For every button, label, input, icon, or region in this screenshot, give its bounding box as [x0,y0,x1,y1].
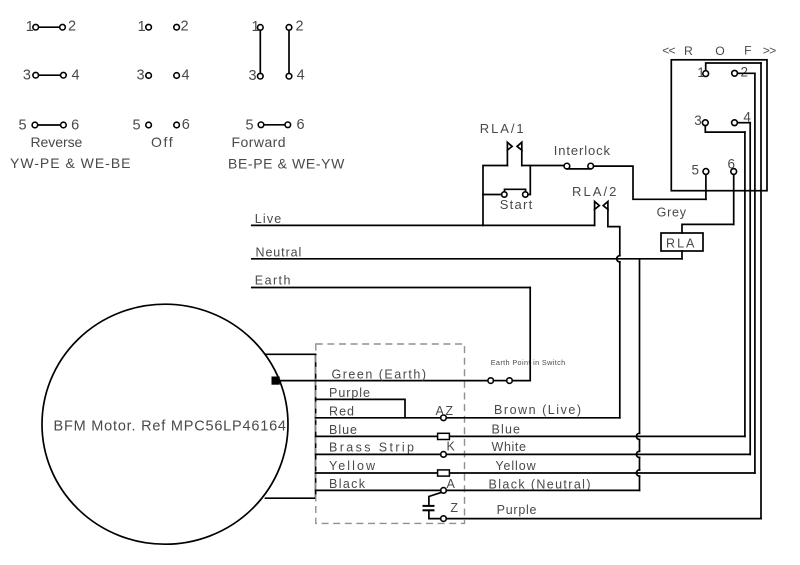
svg-text:F: F [744,44,751,58]
svg-text:AZ: AZ [436,404,454,418]
svg-text:Green (Earth): Green (Earth) [332,368,427,382]
svg-text:3: 3 [23,68,31,84]
wire: contact 2 to vertical [738,72,755,74]
wire: RLA/2 output down to Brown (Live) [619,262,621,418]
wire White [446,453,750,455]
earth terminal on motor frame (filled square) [272,377,280,385]
svg-text:YW-PE & WE-BE: YW-PE & WE-BE [10,155,131,171]
svg-text:6: 6 [182,117,190,133]
wire hop over White [636,451,639,457]
svg-text:1: 1 [697,65,705,80]
svg-text:2: 2 [68,19,76,35]
terminal Z [441,501,459,521]
Forward position: link contacts 2-4 [286,19,305,84]
svg-text:Earth Point in Switch: Earth Point in Switch [491,358,566,367]
svg-text:Purple: Purple [329,386,370,400]
svg-text:6: 6 [728,156,736,171]
Forward position: link contacts 1-3 [248,19,263,84]
wire hop: RLA/2 output over Neutral [617,256,620,262]
wire Blue [316,435,745,437]
svg-text:Red: Red [329,404,354,418]
svg-text:K: K [447,440,456,454]
wire: Neutral branch down to Black (Neutral) [636,259,639,491]
wire Earth [252,287,530,289]
motor M1: BFM Motor [42,304,288,544]
wire: contact 6 drop [733,174,735,224]
Off position: open contacts 3,4 [137,67,190,83]
relay contact RLA/1 (flag pair) [507,142,521,165]
wire: RLA/2 output jog [608,227,620,256]
ROF contact 1 [697,65,708,80]
wire: terminal bus vertical [315,354,317,498]
svg-text:BFM Motor. Ref MPC56LP46164: BFM Motor. Ref MPC56LP46164 [54,418,287,434]
svg-text:Yellow: Yellow [329,459,376,473]
wire Black (Neutral) [446,489,639,491]
terminal K [441,440,456,458]
svg-text:RLA/1: RLA/1 [480,121,524,136]
wire: Grey wire from contact 6 to RLA coil [682,224,734,233]
wire Live [252,224,595,226]
svg-text:1: 1 [138,19,146,35]
SECTION: supply wires [252,212,682,491]
wire Brown (Live) [446,417,620,419]
Reverse position: link contacts 5-6 [18,117,79,133]
terminal AZ [436,404,454,421]
svg-text:Z: Z [450,501,458,515]
ROF contact 2 [732,64,748,79]
terminal box (dashed) [316,344,465,523]
Forward position: link contacts 5-6 [245,117,304,134]
svg-text:6: 6 [71,117,79,133]
svg-text:RLA/2: RLA/2 [572,184,616,199]
SECTION: relay logic [480,121,706,418]
ROF contact 6 [728,156,737,174]
svg-text:2: 2 [180,19,188,35]
svg-text:4: 4 [297,68,305,84]
wire: contact 2 drop to Yellow wire [754,73,756,473]
wire: start button left leg [483,194,502,196]
svg-text:4: 4 [71,67,79,83]
svg-text:Reverse: Reverse [31,134,83,150]
svg-text:3: 3 [248,68,256,84]
svg-text:Neutral: Neutral [256,245,302,259]
wire: live riser to RLA/1 left terminal [483,166,507,226]
svg-text:<<: << [662,44,675,58]
svg-text:A: A [447,477,456,491]
SECTION: ROF selector switch [657,44,777,519]
svg-text:Interlock: Interlock [554,143,611,158]
wire: contact 4 to vertical [737,122,750,124]
wire Green (Earth) [276,380,488,382]
svg-text:Blue: Blue [492,423,521,437]
svg-text:1: 1 [26,19,34,35]
svg-text:R: R [684,44,693,58]
capacitor C1 [423,493,442,519]
wire: interlock to ROF contact 5 [594,166,706,199]
svg-text:Grey: Grey [657,206,687,220]
svg-text:4: 4 [181,67,189,83]
ROF switch enclosure box [671,60,767,191]
svg-text:Forward: Forward [232,134,286,150]
svg-text:5: 5 [18,118,26,134]
wire: motor bottom lead to terminal bus [266,497,316,499]
svg-text:>>: >> [763,44,776,58]
svg-text:5: 5 [245,117,253,133]
svg-text:Start: Start [500,197,533,212]
wire: contact 1 drop to Purple wire (right outer vertical) [760,63,762,519]
svg-text:Live: Live [255,212,281,226]
SECTION: motor and terminal box [42,304,761,544]
svg-text:Earth: Earth [255,274,291,288]
wire Yellow [316,472,755,474]
label << R O F >> [662,44,776,58]
relay contact RLA/2 (flag pair) [595,202,608,227]
fuse link on Yellow wire [438,470,450,476]
wire Purple motor lead joining Red [316,399,405,417]
wire Brass Strip to terminal K [316,453,441,455]
svg-text:Blue: Blue [329,423,357,437]
earth point contact circles [488,378,512,384]
SECTION: switch position diagrams [10,19,345,172]
terminal A [441,477,456,493]
ROF contact 5 [691,163,708,178]
wire hop over Blue [636,433,639,439]
svg-text:2: 2 [740,64,748,79]
wire: start button right leg to node [528,166,530,195]
wire Purple to ROF contact 1 [446,518,761,520]
wire Neutral [252,258,682,260]
svg-text:1: 1 [252,19,260,35]
wire: earth point to earth drop [512,380,530,382]
wire hop over Yellow [636,470,639,476]
svg-text:2: 2 [296,19,304,35]
wire: contact 5 drop to interlock feed [705,174,707,199]
wire: contact 1 riser to top rail [706,63,761,71]
Off position: open contacts 5,6 [133,117,190,134]
svg-text:Black: Black [329,477,366,491]
pushbutton Start [502,189,528,197]
wire: contact 4 drop to White wire [749,123,751,455]
ROF contact 4 [732,110,752,126]
wire: Earth drop to earth point [529,288,531,381]
relay coil RLA [661,233,703,251]
svg-text:White: White [492,440,527,454]
wire: RLA/1 right terminal to interlock [522,165,564,167]
svg-text:5: 5 [133,118,141,134]
wire Red to terminal AZ [316,417,441,419]
svg-text:Yellow: Yellow [495,459,536,473]
switch contact Interlock [564,163,594,169]
svg-text:Black (Neutral): Black (Neutral) [489,478,591,492]
svg-text:6: 6 [296,117,304,133]
wire: RLA coil to Neutral [681,251,683,259]
svg-text:Brown (Live): Brown (Live) [494,403,581,417]
wire: contact 3 jog [705,126,745,133]
wire: motor top lead to terminal bus [266,353,316,355]
wire Black to terminal A [316,489,441,491]
ROF contact 3 [694,113,708,128]
Off position: open contacts 1,2 [138,19,189,36]
svg-text:O: O [715,44,724,58]
svg-text:3: 3 [694,113,702,128]
Reverse position: link contacts 1-2 [26,19,76,36]
svg-text:3: 3 [137,68,145,84]
svg-text:RLA: RLA [666,237,695,251]
svg-text:5: 5 [691,163,699,178]
wire: contact 3 drop to Blue wire [744,132,746,436]
svg-text:Purple: Purple [497,503,537,517]
svg-text:BE-PE & WE-YW: BE-PE & WE-YW [228,155,345,171]
Reverse position: link contacts 3-4 [23,67,80,83]
fuse link on Blue wire [438,433,450,439]
